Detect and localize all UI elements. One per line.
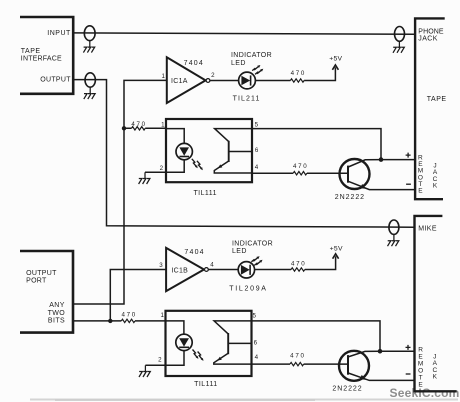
- svg-text:TWO: TWO: [48, 310, 66, 317]
- svg-text:INPUT: INPUT: [47, 30, 71, 37]
- svg-text:3: 3: [159, 262, 163, 269]
- svg-text:TIL209A: TIL209A: [229, 286, 267, 293]
- svg-text:2: 2: [211, 72, 215, 79]
- svg-text:TAPE: TAPE: [21, 48, 41, 55]
- svg-text:INDICATOR: INDICATOR: [232, 240, 273, 247]
- svg-text:470: 470: [291, 70, 306, 77]
- svg-text:470: 470: [131, 121, 146, 128]
- svg-text:INDICATOR: INDICATOR: [231, 52, 272, 59]
- svg-text:BITS: BITS: [48, 317, 65, 324]
- svg-text:1: 1: [161, 122, 165, 129]
- svg-text:TIL211: TIL211: [233, 96, 261, 103]
- svg-text:E: E: [418, 353, 423, 360]
- svg-text:K: K: [433, 374, 438, 381]
- svg-text:PHONE: PHONE: [418, 29, 444, 36]
- svg-text:+5V: +5V: [330, 245, 343, 252]
- svg-text:7404: 7404: [184, 60, 204, 67]
- svg-text:R: R: [418, 346, 423, 353]
- svg-text:470: 470: [121, 312, 136, 319]
- svg-text:1: 1: [161, 73, 165, 80]
- svg-text:5: 5: [255, 122, 259, 129]
- svg-text:+5V: +5V: [329, 55, 342, 62]
- svg-text:4: 4: [210, 261, 214, 268]
- svg-text:7404: 7404: [184, 249, 204, 256]
- svg-text:INTERFACE: INTERFACE: [21, 56, 62, 63]
- svg-text:4: 4: [255, 164, 259, 171]
- svg-text:SeekIC.com: SeekIC.com: [390, 386, 460, 400]
- svg-text:IC1B: IC1B: [171, 268, 188, 275]
- svg-text:TAPE: TAPE: [427, 96, 447, 103]
- svg-text:OUTPUT: OUTPUT: [40, 76, 71, 83]
- svg-text:MIKE: MIKE: [418, 226, 437, 233]
- svg-text:2: 2: [160, 165, 164, 172]
- svg-text:2N2222: 2N2222: [335, 194, 365, 201]
- svg-text:PORT: PORT: [26, 277, 47, 284]
- svg-text:M: M: [418, 360, 423, 367]
- svg-text:T: T: [419, 374, 423, 381]
- svg-text:IC1A: IC1A: [171, 78, 188, 85]
- svg-text:ANY: ANY: [49, 302, 65, 309]
- svg-text:4: 4: [255, 354, 259, 361]
- svg-text:5: 5: [252, 313, 256, 320]
- svg-text:E: E: [418, 381, 423, 388]
- svg-text:E: E: [418, 188, 423, 195]
- svg-text:6: 6: [255, 147, 259, 154]
- svg-text:JACK: JACK: [418, 36, 438, 43]
- svg-text:O: O: [418, 367, 423, 374]
- svg-text:TIL111: TIL111: [194, 381, 217, 388]
- svg-text:2N2222: 2N2222: [332, 386, 362, 393]
- svg-text:470: 470: [291, 260, 306, 267]
- svg-text:LED: LED: [232, 248, 247, 255]
- svg-text:2: 2: [158, 357, 162, 364]
- svg-text:TIL111: TIL111: [193, 190, 216, 197]
- svg-text:LED: LED: [231, 60, 246, 67]
- svg-text:6: 6: [254, 339, 258, 346]
- svg-text:470: 470: [293, 163, 308, 170]
- svg-text:470: 470: [290, 353, 305, 360]
- svg-text:K: K: [433, 183, 438, 190]
- svg-text:1: 1: [160, 312, 164, 319]
- svg-text:OUTPUT: OUTPUT: [26, 270, 57, 277]
